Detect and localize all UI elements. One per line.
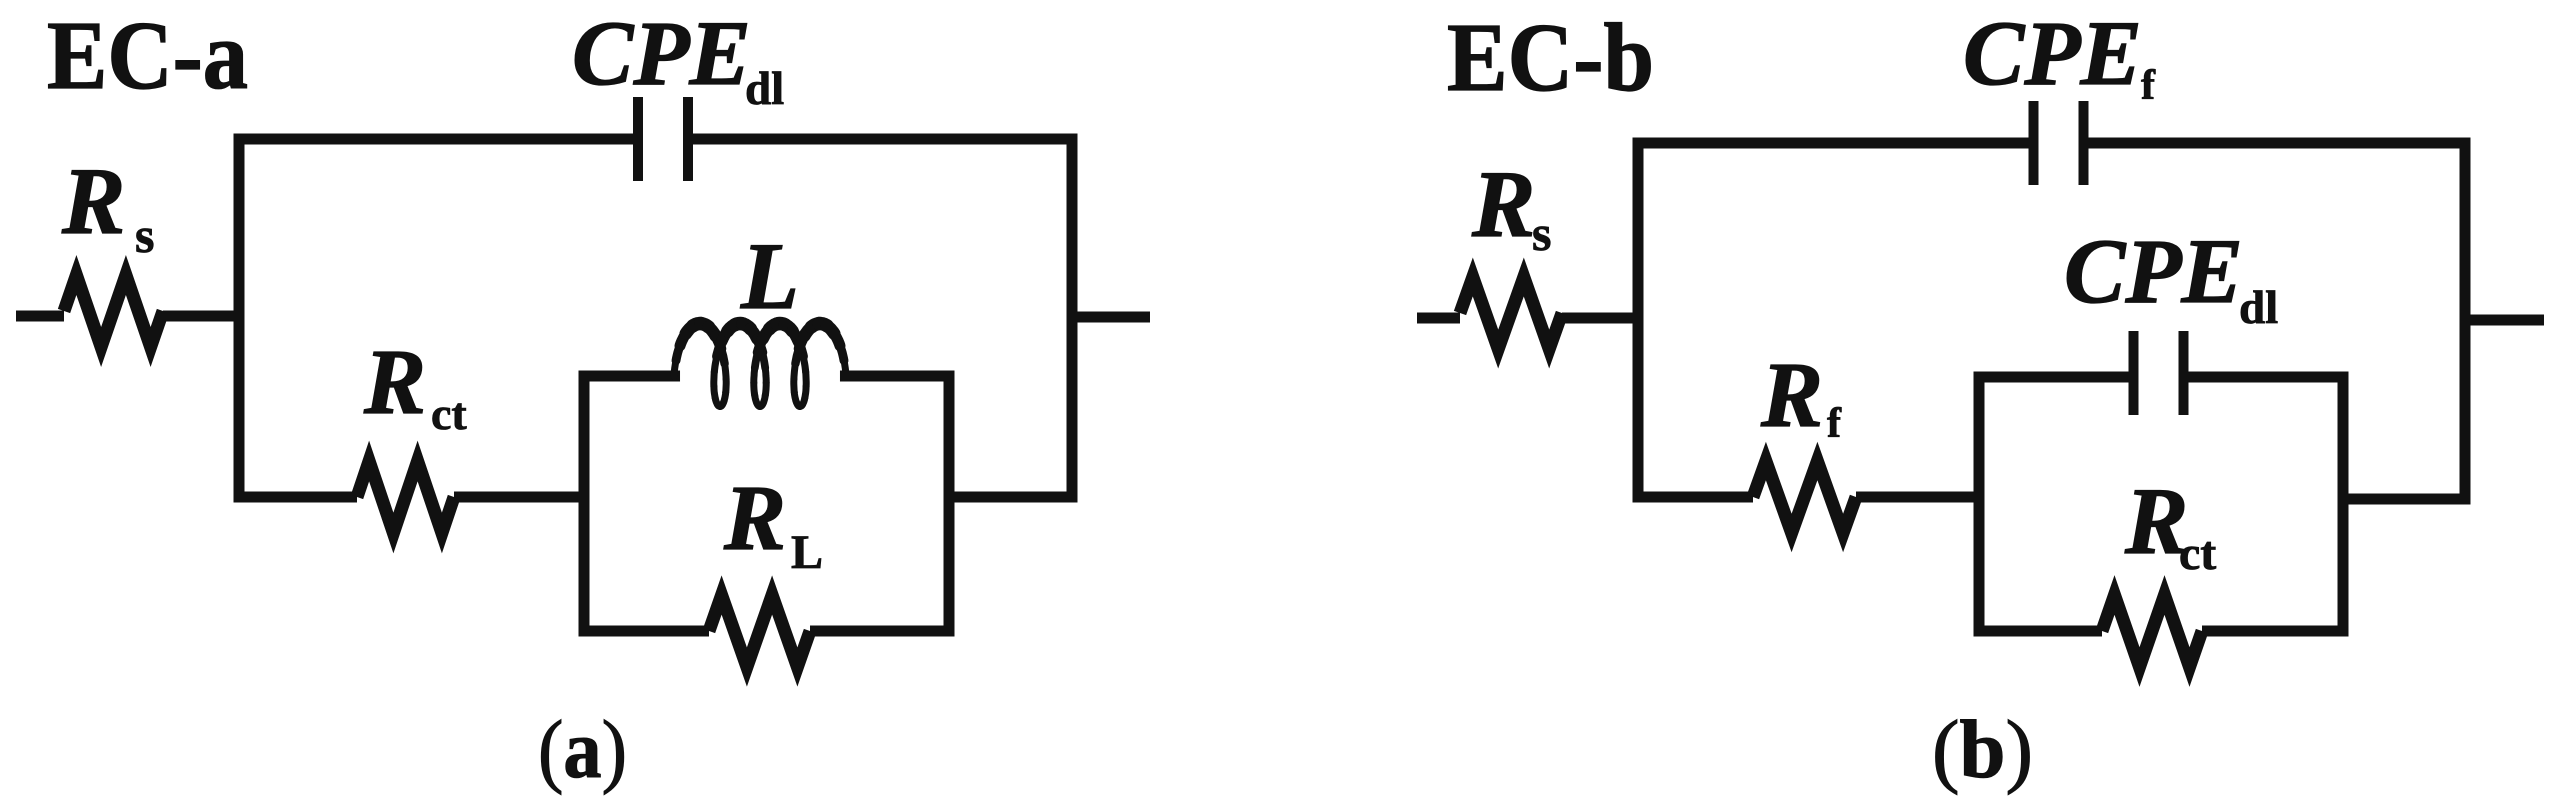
svg-text:dl: dl (745, 63, 784, 115)
wire top branch right EC-b (2084, 138, 2471, 149)
wire inner box right edge EC-b (2338, 372, 2349, 637)
inductor L (674, 324, 846, 407)
wire inner box top-right EC-a (840, 371, 955, 382)
wire inner box top-right EC-b (2184, 372, 2349, 383)
svg-text:(b): (b) (1932, 703, 2033, 795)
svg-text:s: s (1532, 205, 1551, 261)
resistor RL (709, 595, 810, 667)
wire output terminal EC-b (2465, 315, 2544, 326)
wire inner box bottom-left EC-b (1974, 626, 2103, 637)
resistor Rct (EC-b) (2102, 595, 2202, 667)
svg-text:R: R (61, 148, 125, 254)
wire Rct to inner box EC-a (454, 492, 590, 503)
svg-text:R: R (363, 331, 426, 434)
circuit EC-b (1417, 2, 2544, 795)
svg-text:EC-b: EC-b (1447, 4, 1654, 111)
svg-text:f: f (2141, 63, 2156, 109)
svg-text:EC-a: EC-a (47, 2, 248, 109)
wire inner box bottom-right EC-b (2202, 626, 2349, 637)
wire top branch left EC-a (234, 134, 639, 145)
svg-text:L: L (791, 526, 823, 579)
wire Rs to node A (163, 311, 245, 322)
wire bottom branch left EC-b (1633, 492, 1754, 503)
circuit EC-a (16, 2, 1150, 795)
svg-text:ct: ct (431, 388, 467, 439)
resistor Rs (EC-a) (64, 275, 163, 347)
capacitor CPEdl plate 1 (EC-a) (633, 97, 643, 181)
resistor Rf (1753, 461, 1856, 533)
wire right vertical EC-b (2460, 138, 2471, 505)
wire inner box bottom-right EC-a (810, 626, 955, 637)
wire inner box right edge EC-a (944, 371, 955, 637)
wire inner box left edge EC-a (579, 371, 590, 637)
svg-text:L: L (740, 223, 799, 329)
wire inner box left edge EC-b (1974, 372, 1985, 637)
svg-text:R: R (1471, 151, 1535, 257)
svg-text:(a): (a) (538, 703, 627, 795)
wire input terminal EC-a (16, 311, 64, 322)
resistor Rs (EC-b) (1460, 277, 1562, 349)
wire Rf to inner box EC-b (1856, 492, 1985, 503)
wire input terminal EC-b (1417, 313, 1460, 324)
capacitor CPEf plate 1 (2029, 101, 2039, 185)
wire inner box to right vertical EC-a (949, 492, 1072, 503)
svg-text:CPE: CPE (1963, 2, 2142, 104)
wire top branch right EC-a (688, 134, 1078, 145)
wire top branch left EC-b (1633, 138, 2034, 149)
svg-text:CPE: CPE (572, 2, 751, 104)
capacitor CPEdl plate 2 (EC-b) (2179, 331, 2189, 415)
wire Rs to node B (1562, 313, 1644, 324)
wire left vertical EC-b (1633, 138, 1644, 503)
wire right vertical EC-a (1067, 134, 1078, 503)
svg-text:ct: ct (2179, 527, 2216, 580)
capacitor CPEdl plate 1 (EC-b) (2129, 331, 2139, 415)
resistor Rct (EC-a) (357, 461, 454, 533)
capacitor CPEdl plate 2 (EC-a) (683, 97, 693, 181)
svg-text:R: R (723, 467, 786, 570)
wire inner box bottom-left EC-a (579, 626, 710, 637)
capacitor CPEf plate 2 (2079, 101, 2089, 185)
svg-text:R: R (1760, 344, 1823, 447)
wire inner box top-left EC-b (1974, 372, 2134, 383)
wire inner box top-left EC-a (579, 371, 681, 382)
wire inner box to right vertical EC-b (2343, 494, 2465, 505)
wire left vertical EC-a (234, 134, 245, 503)
svg-text:dl: dl (2239, 282, 2278, 334)
svg-text:f: f (1827, 401, 1842, 447)
svg-text:CPE: CPE (2064, 220, 2243, 322)
wire bottom branch left EC-a (234, 492, 358, 503)
wire output terminal EC-a (1072, 312, 1150, 323)
svg-text:s: s (135, 207, 154, 263)
